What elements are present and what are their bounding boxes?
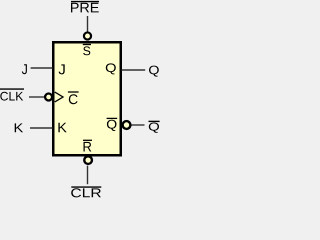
label K outer bbox=[15, 123, 23, 132]
wire Qbar bbox=[132, 124, 145, 126]
label CLR bbox=[71, 187, 101, 197]
clear bubble bbox=[84, 156, 92, 164]
pin label Qbar bbox=[107, 118, 118, 131]
preset bubble bbox=[84, 32, 91, 39]
pin label C bbox=[68, 92, 79, 104]
pin label Q bbox=[106, 63, 116, 74]
wire PRE bbox=[87, 16, 89, 32]
label PRE bbox=[71, 2, 99, 13]
clock edge triangle bbox=[55, 92, 63, 102]
wire Q bbox=[122, 69, 146, 71]
wire CLK bbox=[29, 96, 44, 98]
complement bubble bbox=[123, 121, 131, 129]
pin label J bbox=[59, 64, 65, 74]
flip-flop body U1 bbox=[53, 42, 121, 155]
pin label S bbox=[83, 45, 91, 56]
pin label R bbox=[83, 140, 92, 151]
label Q outer bbox=[149, 66, 159, 77]
wire J bbox=[31, 67, 53, 69]
label CLK outer bbox=[0, 89, 24, 101]
label Qbar outer bbox=[149, 121, 160, 132]
wire CLR bbox=[87, 166, 89, 185]
pin label K bbox=[58, 123, 66, 132]
wire K bbox=[30, 127, 53, 129]
label J outer bbox=[22, 64, 27, 74]
clock bubble bbox=[45, 94, 52, 101]
